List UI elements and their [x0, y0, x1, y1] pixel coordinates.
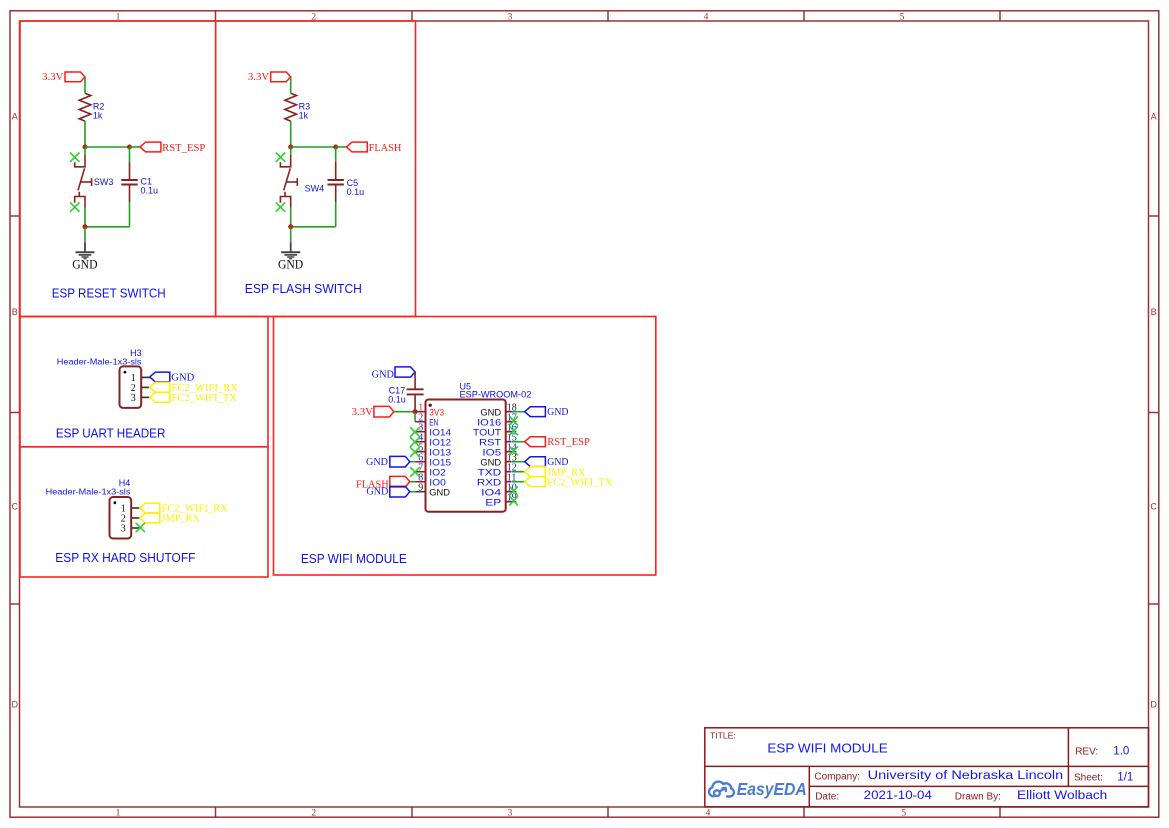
svg-text:ESP-WROOM-02: ESP-WROOM-02	[460, 389, 532, 399]
capacitor C17	[407, 373, 424, 412]
svg-text:B: B	[1151, 307, 1157, 317]
svg-text:Drawn By:: Drawn By:	[955, 792, 1001, 803]
svg-text:1.0: 1.0	[1113, 746, 1129, 758]
wire U5 pin 15 to RST_ESP flag	[512, 441, 525, 443]
wire node to SW3	[84, 147, 86, 155]
wire R3 to node	[290, 121, 292, 147]
svg-text:1/1: 1/1	[1117, 772, 1133, 784]
ground GND (reset)	[76, 242, 95, 259]
net label FC2_WIFI_RX on H4 pin 1	[140, 503, 160, 513]
chip U5 pin1 orientation dot	[429, 404, 432, 407]
junction node at R3/SW4	[288, 145, 293, 150]
power flag 3.3V (flash)	[271, 72, 291, 82]
wire U5 pin 11 to FC2_WIFI_TX label	[512, 481, 525, 483]
svg-text:D: D	[1150, 700, 1157, 710]
header H4 pin 2 stub	[131, 517, 140, 519]
svg-text:University of Nebraska Lincoln: University of Nebraska Lincoln	[868, 770, 1063, 782]
title block outline	[705, 728, 1149, 807]
svg-text:RST_ESP: RST_ESP	[547, 437, 590, 448]
junction node at C1/RST_ESP	[127, 145, 132, 150]
svg-text:Company:: Company:	[814, 772, 860, 783]
net label JMP_RX on H4 pin 2	[140, 513, 160, 523]
wire node to FLASH flag	[336, 146, 347, 148]
header H3 pin 3 stub	[141, 396, 150, 398]
svg-text:0.1u: 0.1u	[347, 187, 365, 197]
header H4 body	[110, 497, 132, 539]
svg-text:ESP RESET SWITCH: ESP RESET SWITCH	[52, 285, 166, 300]
wire node to ground	[84, 227, 86, 242]
net flag GND above C17	[395, 367, 415, 377]
block rectangle ESP RESET SWITCH	[20, 21, 216, 317]
svg-text:C: C	[1150, 502, 1157, 512]
svg-text:Elliott Wolbach: Elliott Wolbach	[1017, 790, 1107, 802]
svg-text:ESP UART HEADER: ESP UART HEADER	[56, 426, 165, 441]
svg-text:TITLE:: TITLE:	[710, 731, 736, 741]
svg-text:A: A	[1151, 112, 1157, 122]
svg-text:5: 5	[901, 809, 906, 819]
svg-text:FLASH: FLASH	[369, 143, 402, 154]
wire U5 pin 12 to JMP_RX label	[512, 471, 525, 473]
net flag FLASH	[346, 142, 367, 152]
no-connect X on SW3 pin top	[70, 153, 79, 162]
svg-text:2: 2	[311, 809, 316, 819]
wire C5 to bottom wire	[335, 202, 337, 227]
power flag 3.3V (reset)	[65, 72, 85, 82]
wire node to RST_ESP flag	[130, 146, 141, 148]
wire 3.3V to R3	[290, 77, 292, 93]
svg-text:4: 4	[706, 809, 711, 819]
no-connect X on U5 pin 17	[509, 416, 518, 425]
junction node at U5 pin1	[413, 409, 418, 414]
chip U5 body	[426, 400, 506, 512]
wire R2 to node	[84, 121, 86, 147]
power flag 3.3V (module)	[374, 406, 394, 417]
no-connect X on U5 pin 16	[509, 426, 518, 435]
junction bottom node	[83, 224, 88, 229]
no-connect X on H4 pin 3	[136, 523, 145, 532]
no-connect X on SW4 pin top	[276, 153, 285, 162]
svg-text:SW4: SW4	[305, 184, 325, 194]
net flag GND on H3 pin 1	[150, 372, 170, 382]
wire node to node C5	[291, 146, 336, 148]
wire 3.3V to R2	[84, 77, 86, 93]
svg-text:ESP RX HARD SHUTOFF: ESP RX HARD SHUTOFF	[55, 550, 195, 565]
svg-text:GND: GND	[72, 257, 97, 272]
capacitor C1	[129, 147, 131, 162]
net label JMP_RX on U5 pin 12	[525, 467, 546, 477]
wire bottom rail flash	[291, 226, 336, 228]
U5 right pin stubs (pins 18,17,16,15,14,13,12,11,10,19)	[506, 412, 517, 502]
block rectangle ESP RX HARD SHUTOFF	[20, 447, 268, 577]
svg-text:3.3V: 3.3V	[248, 72, 270, 83]
svg-text:FC2_WIFI_TX: FC2_WIFI_TX	[547, 477, 613, 488]
column tick marks bottom	[216, 807, 1001, 817]
no-connect X on U5 pin 10	[509, 486, 518, 495]
resistor R3	[285, 93, 297, 121]
column tick marks top	[216, 11, 1001, 21]
net label FC2_WIFI_RX on H3 pin 2	[150, 382, 170, 392]
svg-text:0.1u: 0.1u	[388, 394, 406, 404]
svg-text:GND: GND	[366, 457, 388, 468]
no-connect X on SW4 pin bottom	[276, 202, 285, 211]
header H3 body	[120, 366, 142, 408]
svg-text:Sheet:: Sheet:	[1074, 773, 1103, 784]
svg-text:C: C	[11, 502, 18, 512]
row tick marks right	[1149, 216, 1159, 604]
svg-text:GND: GND	[278, 257, 303, 272]
svg-text:GND: GND	[366, 487, 388, 498]
wire bottom rail	[85, 226, 130, 228]
svg-text:9: 9	[418, 483, 423, 494]
junction node at C5/FLASH	[333, 145, 338, 150]
junction node at R2/SW3	[83, 145, 88, 150]
junction bottom node flash	[288, 224, 293, 229]
svg-text:Header-Male-1x3-sls: Header-Male-1x3-sls	[46, 487, 131, 497]
no-connect X on U5 pin 14	[509, 446, 518, 455]
EasyEDA logo cloud	[709, 782, 734, 797]
capacitor C5	[335, 147, 337, 162]
wire node down to U5 pin2	[414, 412, 416, 422]
net flag RST_ESP on U5 pin 15	[525, 437, 546, 447]
svg-text:B: B	[12, 307, 18, 317]
wire node to ground flash	[290, 227, 292, 242]
svg-text:D: D	[11, 700, 18, 710]
header H3 pin 2 stub	[141, 386, 150, 388]
svg-text:EasyEDA: EasyEDA	[737, 779, 807, 799]
switch SW3	[75, 155, 92, 208]
net flag FLASH on U5 pin 8	[410, 481, 415, 483]
svg-text:FC2_WIFI_TX: FC2_WIFI_TX	[172, 393, 238, 404]
svg-text:ESP WIFI MODULE: ESP WIFI MODULE	[767, 741, 888, 756]
ground GND (flash)	[281, 242, 300, 259]
no-connect X on SW3 pin bottom	[70, 202, 79, 211]
svg-text:ESP WIFI MODULE: ESP WIFI MODULE	[301, 551, 407, 566]
svg-text:5: 5	[900, 13, 905, 23]
svg-text:1: 1	[116, 809, 121, 819]
no-connect X on U5 pin 4	[410, 437, 420, 447]
svg-text:1k: 1k	[299, 110, 309, 120]
block rectangle ESP WIFI MODULE	[274, 317, 656, 576]
svg-text:A: A	[12, 112, 18, 122]
svg-text:EP: EP	[485, 498, 501, 509]
net flag GND on U5 pin 6	[410, 461, 415, 463]
no-connect X on U5 pin 19	[509, 496, 518, 505]
net label FC2_WIFI_TX on H3 pin 3	[150, 393, 170, 403]
no-connect X on U5 pin 5	[410, 447, 420, 457]
svg-text:Header-Male-1x3-sls: Header-Male-1x3-sls	[57, 356, 142, 366]
svg-text:3: 3	[131, 393, 136, 404]
no-connect X on U5 pin 3	[410, 427, 420, 437]
wire U5 pin 13 to GND flag	[512, 461, 525, 463]
block rectangle ESP UART HEADER	[20, 317, 268, 447]
svg-text:GND: GND	[429, 488, 450, 499]
svg-text:3: 3	[508, 809, 513, 819]
resistor R2	[79, 93, 91, 121]
svg-text:GND: GND	[547, 407, 568, 418]
net flag RST_ESP	[140, 142, 161, 152]
switch SW4	[280, 155, 297, 208]
svg-text:4: 4	[704, 13, 709, 23]
row tick marks left	[10, 216, 20, 604]
wire 3.3V to U5 pin1	[394, 411, 415, 413]
wire SW4 to bottom node	[290, 208, 292, 227]
wire node to node C1	[85, 146, 130, 148]
svg-text:3: 3	[121, 524, 126, 535]
svg-text:GND: GND	[171, 373, 194, 384]
wire U5 pin 18 to GND flag	[512, 411, 525, 413]
net label FC2_WIFI_TX on U5 pin 11	[525, 477, 546, 487]
header H4 pin 3 stub	[131, 527, 140, 529]
svg-text:2021-10-04: 2021-10-04	[864, 790, 933, 802]
wire SW3 to bottom node	[84, 208, 86, 227]
wire C1 to bottom wire	[129, 202, 131, 227]
svg-text:3: 3	[508, 13, 513, 23]
header H3 pin 1 stub	[141, 376, 150, 378]
svg-text:SW3: SW3	[94, 177, 114, 187]
svg-text:Date:: Date:	[815, 792, 839, 803]
header H4 pin 1 stub	[131, 507, 140, 509]
net flag GND on U5 pin 13	[525, 457, 546, 467]
header H3 pin1 orientation dot	[124, 371, 127, 374]
net flag GND on U5 pin 9	[410, 491, 415, 493]
svg-text:1k: 1k	[93, 110, 103, 120]
svg-text:GND: GND	[372, 370, 394, 381]
svg-text:JMP_RX: JMP_RX	[162, 514, 201, 525]
net flag GND on U5 pin 18	[525, 407, 546, 417]
svg-text:REV:: REV:	[1075, 747, 1098, 758]
wire node to SW4	[290, 147, 292, 155]
svg-text:3.3V: 3.3V	[42, 72, 64, 83]
block rectangle ESP FLASH SWITCH	[216, 21, 416, 317]
svg-text:RST_ESP: RST_ESP	[162, 143, 206, 154]
svg-text:0.1u: 0.1u	[141, 185, 159, 195]
svg-text:ESP FLASH SWITCH: ESP FLASH SWITCH	[245, 281, 362, 296]
no-connect X on U5 pin 7	[410, 467, 420, 477]
svg-text:3.3V: 3.3V	[352, 407, 374, 418]
header H4 pin1 orientation dot	[114, 501, 117, 504]
U5 left pin stubs (pins 1-9)	[415, 412, 425, 482]
